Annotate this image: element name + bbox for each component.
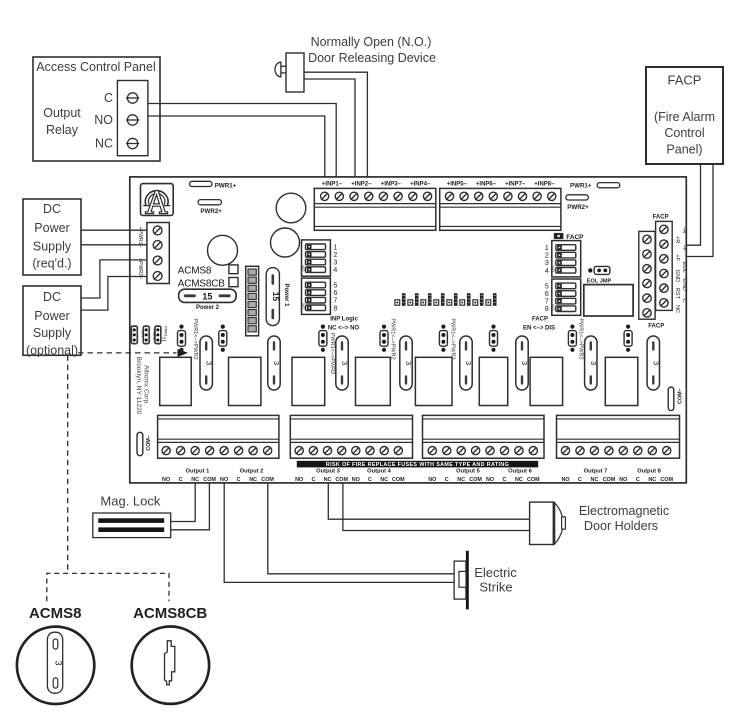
svg-text:1: 1 (333, 244, 337, 251)
svg-text:ACMS8CB: ACMS8CB (178, 279, 225, 290)
PWR1+ LED (right) (570, 182, 620, 189)
svg-text:Relay: Relay (46, 123, 79, 137)
fuse F1 (200, 336, 213, 390)
DIP switch FACP 5-8 (545, 279, 581, 315)
svg-text:3: 3 (520, 361, 529, 365)
DIP switch INP logic 5-8 (300, 278, 337, 314)
DC power supply (optional) box (23, 286, 81, 358)
svg-text:C: C (681, 298, 687, 302)
svg-text:NC: NC (457, 477, 465, 483)
svg-text:PWR1<–>PWR2: PWR1<–>PWR2 (450, 318, 456, 359)
relay K5 (415, 357, 452, 405)
svg-text:ACMS8: ACMS8 (29, 605, 82, 622)
svg-text:3: 3 (340, 361, 349, 365)
COM- pad (right) (668, 387, 683, 411)
svg-text:COM–: COM– (678, 388, 684, 404)
FACP EN DIS label (523, 317, 555, 332)
svg-text:(Fire Alarm: (Fire Alarm (654, 110, 715, 124)
svg-text:ON: ON (300, 303, 305, 309)
svg-text:ACMS8CB: ACMS8CB (133, 605, 207, 622)
COM- pad (left) (137, 432, 152, 455)
svg-text:5: 5 (545, 283, 549, 290)
relay K1 (160, 357, 192, 405)
svg-text:7: 7 (545, 299, 549, 306)
svg-text:PWR1+: PWR1+ (215, 182, 237, 189)
svg-text:ON: ON (551, 266, 556, 272)
svg-text:(optional): (optional) (26, 344, 78, 358)
svg-text:NC: NC (324, 477, 332, 483)
svg-text:3: 3 (404, 361, 413, 365)
svg-text:PWR1<–>PWR2: PWR1<–>PWR2 (390, 318, 396, 359)
fuse F2 (268, 336, 281, 390)
ACMS8 model checkbox (178, 265, 238, 276)
svg-text:C: C (311, 477, 315, 483)
access control panel box (33, 57, 160, 161)
svg-text:Supply: Supply (33, 326, 72, 340)
svg-text:Panel): Panel) (666, 143, 702, 157)
svg-text:OFF: OFF (141, 331, 145, 339)
svg-text:Brooklyn, NY 11220: Brooklyn, NY 11220 (135, 356, 142, 414)
svg-text:4: 4 (545, 268, 549, 275)
wire output1 NC to mag lock (171, 483, 196, 522)
svg-text:Electromagnetic: Electromagnetic (579, 504, 669, 518)
svg-text:NC: NC (249, 477, 257, 483)
svg-text:C: C (368, 477, 372, 483)
svg-text:NO: NO (428, 477, 436, 483)
wire output2 NO to electric strike (224, 483, 454, 583)
DC power supply (required) box (23, 199, 81, 275)
output terminal labels (162, 477, 673, 483)
ACMS8CB model checkbox (178, 278, 238, 290)
svg-text:C: C (445, 477, 449, 483)
svg-text:Output 3: Output 3 (316, 468, 341, 474)
push button (door releasing device) (275, 53, 304, 92)
fuse F7 (585, 336, 598, 390)
output terminal strip 3-4 (290, 415, 412, 458)
jumper JP8 (624, 325, 632, 352)
svg-text:8: 8 (545, 306, 549, 313)
svg-text:NO: NO (162, 477, 170, 483)
svg-text:NO: NO (352, 477, 360, 483)
svg-text:Output 7: Output 7 (584, 468, 608, 474)
FACP terminal block (outer) (656, 221, 673, 310)
svg-text:1: 1 (545, 245, 549, 252)
svg-text:C: C (237, 477, 241, 483)
svg-text:NO: NO (220, 477, 228, 483)
svg-text:15: 15 (271, 292, 281, 302)
svg-text:+PWR1–: +PWR1– (137, 227, 143, 248)
svg-text:+INP6–: +INP6– (476, 181, 497, 187)
fuse F4 (400, 336, 413, 390)
svg-text:GND: GND (681, 278, 687, 290)
svg-text:Output 1: Output 1 (185, 468, 210, 474)
svg-text:4: 4 (333, 267, 337, 274)
jumper JP2 (219, 325, 227, 352)
svg-text:PWR1<–>PWR2: PWR1<–>PWR2 (192, 318, 198, 359)
svg-text:NC <–> NO: NC <–> NO (328, 325, 360, 331)
svg-text:PWR2+: PWR2+ (567, 204, 589, 211)
svg-text:+INP4–: +INP4– (410, 181, 431, 187)
power select jumpers (131, 326, 167, 344)
svg-text:+R: +R (674, 236, 680, 243)
svg-text:Output 5: Output 5 (456, 468, 481, 474)
svg-text:NC: NC (380, 477, 388, 483)
svg-text:NC: NC (674, 305, 680, 313)
svg-text:3: 3 (204, 361, 213, 365)
svg-text:COM: COM (469, 477, 482, 483)
svg-text:ON: ON (551, 304, 556, 310)
relay K4 (356, 357, 391, 405)
svg-text:COM: COM (603, 477, 616, 483)
wire output2 COM to electric strike (268, 483, 454, 574)
svg-text:PWR1+: PWR1+ (570, 182, 592, 189)
svg-text:+INP1–: +INP1– (322, 181, 343, 187)
Altronix logo (141, 184, 174, 216)
svg-text:Power: Power (34, 309, 69, 323)
svg-text:Power: Power (34, 221, 69, 235)
svg-text:+INP3–: +INP3– (381, 181, 402, 187)
wire FACP to board +R (686, 164, 700, 245)
fuse Power 2 (179, 289, 237, 311)
svg-text:Mag. Lock: Mag. Lock (100, 494, 160, 509)
svg-text:PWR2: PWR2 (152, 329, 156, 339)
svg-text:+F: +F (674, 254, 680, 261)
svg-text:NC: NC (191, 477, 199, 483)
svg-text:PWR2+: PWR2+ (200, 208, 222, 215)
svg-text:NO: NO (486, 477, 494, 483)
input terminal strip INP5-8 (440, 188, 561, 230)
svg-text:Output 8: Output 8 (637, 468, 662, 474)
svg-text:Door Holders: Door Holders (584, 519, 658, 533)
svg-text:3: 3 (333, 260, 337, 267)
wire output3 NC to door holder (328, 483, 529, 519)
svg-text:PWR1: PWR1 (163, 326, 167, 336)
svg-text:2: 2 (333, 252, 337, 259)
svg-text:NC: NC (648, 477, 656, 483)
FACP dip header icon (554, 233, 584, 241)
capacitor C1 (276, 193, 306, 223)
svg-text:PWR1<–>PWR2: PWR1<–>PWR2 (578, 318, 584, 359)
svg-text:NC: NC (515, 477, 523, 483)
svg-text:RISK OF FIRE REPLACE FUSES WIT: RISK OF FIRE REPLACE FUSES WITH SAME TYP… (326, 462, 509, 468)
svg-text:PWR1<–>PWR2: PWR1<–>PWR2 (329, 333, 335, 374)
capacitor C2 (271, 228, 300, 257)
svg-text:3: 3 (589, 361, 598, 365)
svg-text:NC: NC (591, 477, 599, 483)
svg-text:+INP2–: +INP2– (351, 181, 372, 187)
relay K6 (479, 357, 507, 405)
DC input terminal block (147, 223, 169, 284)
relay K3 (292, 357, 325, 405)
output terminal strip 5-6 (423, 415, 545, 458)
jumper JP4 (380, 318, 396, 359)
PWR1+ LED (left) (190, 181, 237, 189)
FACP pin labels (674, 226, 687, 313)
PWR2+ LED (left) (198, 200, 222, 216)
jumper JP3 (319, 325, 335, 375)
fuse F6 (516, 336, 529, 390)
svg-text:Normally Open (N.O.): Normally Open (N.O.) (311, 35, 432, 49)
svg-text:C: C (104, 91, 113, 105)
svg-text:EOL: EOL (681, 262, 687, 273)
fuse F5 (460, 336, 473, 390)
svg-text:7: 7 (333, 298, 337, 305)
svg-text:Door Releasing Device: Door Releasing Device (308, 51, 436, 65)
electromagnetic door holder (530, 502, 670, 544)
PWR2+ LED (right) (566, 195, 589, 211)
svg-text:6: 6 (545, 291, 549, 298)
svg-text:ON: ON (300, 265, 305, 271)
output relay terminal block (94, 81, 148, 156)
ACMS8 fuse key (17, 627, 94, 704)
mag lock (93, 494, 171, 538)
svg-text:C: C (636, 477, 640, 483)
svg-text:+INP7–: +INP7– (505, 181, 526, 187)
wire button to +INP2 (upper) (304, 72, 367, 177)
svg-text:Power 2: Power 2 (196, 305, 220, 311)
svg-text:8: 8 (333, 305, 337, 312)
relay K8 (605, 357, 638, 405)
wire reqd supply to -PWR1 (81, 244, 147, 246)
wire NO to +INP1 (148, 116, 325, 177)
svg-text:Control: Control (664, 126, 704, 140)
fuse Power 1 (266, 268, 289, 326)
diode row D1-D8 (395, 293, 497, 306)
svg-text:Output: Output (43, 106, 81, 120)
wire button to +INP2 (lower) (304, 79, 355, 177)
svg-text:Electric: Electric (474, 565, 517, 580)
DIP switch FACP 1-4 (545, 241, 581, 277)
input terminal strip INP1-4 (314, 188, 436, 230)
FACP relay module (584, 285, 633, 316)
svg-text:EN <–> DIS: EN <–> DIS (523, 325, 555, 331)
jumper JP5 (439, 318, 455, 359)
capacitor C3 (208, 235, 238, 265)
svg-text:–R: –R (681, 226, 687, 233)
svg-text:NO: NO (561, 477, 569, 483)
wire C to +INP1 (148, 104, 336, 178)
svg-text:FACP: FACP (653, 214, 669, 220)
svg-text:GND: GND (674, 270, 680, 282)
svg-text:6: 6 (333, 290, 337, 297)
svg-text:FACP: FACP (668, 73, 702, 88)
svg-text:3: 3 (464, 361, 473, 365)
N.O. door releasing device label (308, 35, 436, 65)
FACP block labels (648, 214, 668, 329)
wire optional supply to -PWR2 (81, 277, 147, 311)
svg-text:Power 1: Power 1 (283, 283, 289, 307)
fuse F8 (647, 336, 660, 390)
svg-text:DC: DC (43, 290, 61, 304)
svg-text:Altronix Corp.: Altronix Corp. (143, 365, 150, 405)
svg-text:3: 3 (652, 361, 661, 365)
svg-text:FACP: FACP (532, 317, 548, 323)
dashed distribution to keys (47, 573, 169, 601)
ACMS8CB breaker key (132, 627, 209, 704)
svg-text:15: 15 (202, 292, 212, 302)
svg-text:5: 5 (333, 283, 337, 290)
svg-text:Strike: Strike (479, 580, 512, 595)
svg-text:Output 6: Output 6 (508, 468, 533, 474)
svg-text:COM: COM (527, 477, 540, 483)
svg-text:3: 3 (53, 660, 63, 665)
relay K7 (530, 357, 563, 405)
output terminal strip 7-8 (557, 415, 680, 458)
svg-text:3: 3 (272, 361, 281, 365)
svg-text:FACP: FACP (566, 234, 584, 241)
svg-text:C: C (179, 477, 183, 483)
wire output3 COM to door holder (343, 483, 530, 531)
DIP switch INP logic 1-4 (300, 240, 337, 276)
FACP (fire alarm control panel) box (646, 67, 723, 164)
svg-text:COM: COM (660, 477, 673, 483)
fuse F3 (336, 336, 349, 390)
svg-text:COM: COM (335, 477, 348, 483)
FACP terminal block (inner) (639, 231, 655, 319)
svg-text:NO: NO (619, 477, 627, 483)
svg-text:NO: NO (94, 113, 113, 127)
input labels (322, 181, 555, 187)
dashed wire optional supply down to key fuses (67, 355, 69, 573)
EOL jumper (587, 266, 612, 284)
svg-text:Supply: Supply (33, 240, 72, 254)
svg-text:C: C (578, 477, 582, 483)
svg-text:EOL JMP: EOL JMP (587, 279, 612, 285)
svg-text:COM: COM (392, 477, 405, 483)
wire reqd supply to +PWR1 (81, 229, 147, 231)
svg-text:COM: COM (203, 477, 216, 483)
wire FACP to board -F (686, 164, 713, 257)
svg-text:+PWR2–: +PWR2– (137, 258, 143, 279)
svg-text:INP Logic: INP Logic (330, 316, 358, 322)
svg-text:2: 2 (545, 253, 549, 260)
INP Logic label (328, 316, 360, 331)
dashed wire optional supply to PWR select jumper (78, 349, 188, 357)
output labels (185, 468, 661, 474)
svg-text:(req'd.): (req'd.) (32, 257, 71, 271)
relay K2 (229, 357, 261, 405)
svg-text:Access Control Panel: Access Control Panel (36, 60, 156, 74)
jumper JP7 (568, 318, 583, 359)
svg-text:Output 4: Output 4 (367, 468, 392, 474)
connector header J1 (246, 266, 259, 336)
svg-text:+INP8–: +INP8– (534, 181, 555, 187)
wire output1 COM to mag lock (171, 483, 210, 530)
svg-text:–F: –F (681, 245, 687, 252)
svg-text:Output 2: Output 2 (240, 468, 264, 474)
svg-text:NO: NO (295, 477, 303, 483)
svg-text:DC: DC (43, 202, 61, 216)
electric strike (454, 551, 517, 610)
jumper JP1 (178, 318, 199, 359)
output terminal strip 1-2 (158, 415, 279, 458)
svg-text:FACP: FACP (648, 323, 664, 329)
wire optional supply to +PWR2 (81, 260, 147, 298)
svg-text:NC: NC (95, 137, 113, 151)
svg-text:COM: COM (261, 477, 274, 483)
svg-text:ACMS8: ACMS8 (178, 265, 212, 276)
svg-text:COM–: COM– (146, 435, 152, 451)
fuse warning bar (297, 461, 538, 468)
svg-text:+INP5–: +INP5– (447, 181, 468, 187)
circuit board outline (130, 177, 687, 483)
jumper JP6 (490, 325, 498, 352)
svg-text:3: 3 (545, 260, 549, 267)
svg-text:RST: RST (674, 288, 680, 300)
svg-text:C: C (503, 477, 507, 483)
